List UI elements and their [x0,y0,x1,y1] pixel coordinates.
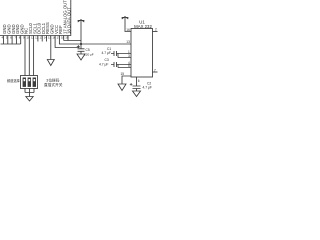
capacitor C2 [133,86,141,91]
svg-text:MAX 232: MAX 232 [134,24,152,29]
pin numbers below U2 edge [2,35,69,39]
wire: pin to MAX232 pin 13 (y=44) [59,36,131,45]
power VCC symbol (left rail) [78,20,85,22]
node: rail junction [80,43,82,45]
svg-text:10: 10 [27,35,31,39]
pin number labels MAX232 [121,28,158,83]
ground [77,54,85,60]
svg-text:19: 19 [65,35,69,39]
svg-text:4.7 μF: 4.7 μF [102,51,111,55]
wire: NC pin stubs [38,36,47,42]
pin name labels inside U2 [2,0,72,34]
svg-text:17: 17 [57,35,61,39]
svg-text:频道选择: 频道选择 [7,78,21,83]
power VCC symbol (MAX232 pin 16) [122,17,129,19]
svg-text:220 μF: 220 μF [84,52,94,56]
ground [118,84,126,91]
svg-text:14: 14 [44,35,48,39]
capacitor C3 (pins 4-5) [111,65,131,68]
capacitor C5 [78,49,85,54]
wire: pin 6 to cap C2 [136,77,138,86]
svg-text:7: 7 [154,68,156,72]
wire: VCC rail [80,20,82,49]
svg-text:16: 16 [126,28,130,32]
wire: left GND bus [1,36,21,45]
svg-text:4.7 μF: 4.7 μF [143,86,152,90]
ground [26,97,33,102]
wire: DIP to ground [25,89,34,97]
svg-text:2: 2 [155,28,157,32]
svg-text:15: 15 [121,72,125,76]
wire: pin 7 stub (right) [153,71,158,73]
capacitor C1 (pins 1-3) [111,54,131,58]
svg-text:12: 12 [35,35,39,39]
wire: pin 15 to ground [122,76,131,84]
wire: VCC to pin 16 [125,17,131,32]
svg-text:C3: C3 [105,58,109,62]
svg-text:15: 15 [48,35,52,39]
IC U1 MAX232 body [131,29,153,78]
wire: pin to cap C5 top (y=47.5) [55,36,79,48]
IC U2 body (top-left, cropped) [0,0,71,36]
ground [47,60,54,66]
svg-text:11: 11 [31,35,34,39]
DIP switch S1 [21,76,38,89]
svg-text:直插式开关: 直插式开关 [44,82,63,87]
ground [133,91,141,97]
svg-text:4.7 μF: 4.7 μF [99,63,108,67]
svg-text:3位拨码: 3位拨码 [46,77,59,82]
svg-text:13: 13 [126,40,130,44]
svg-text:5: 5 [128,64,130,68]
svg-text:13: 13 [39,35,43,39]
svg-text:6: 6 [138,79,140,83]
svg-text:18: 18 [61,35,65,39]
svg-text:18 DATA OUT: 18 DATA OUT [67,7,72,34]
wire: pin 2 stub (right) [153,31,158,33]
wire: bracket pins to VCC rail (y=40.5) [64,36,81,41]
svg-text:16: 16 [52,35,56,39]
wire: pin to ground arrow [50,36,52,60]
svg-text:3: 3 [128,54,130,58]
wire: DIP switch wires [25,36,34,76]
svg-text:C5: C5 [86,48,90,52]
